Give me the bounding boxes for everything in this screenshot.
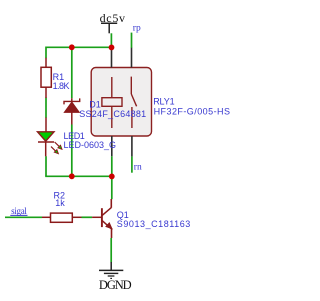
wire bottom rail <box>45 175 112 177</box>
wire D1 column upper <box>71 47 73 98</box>
wire rn stub <box>131 156 133 172</box>
wire rp stub <box>131 33 133 48</box>
wire top rail dc5v <box>46 46 112 48</box>
svg-text:HF32F-G/005-HS: HF32F-G/005-HS <box>154 106 231 116</box>
net label sigal <box>10 206 27 216</box>
svg-text:1k: 1k <box>55 198 65 208</box>
svg-text:1.8K: 1.8K <box>53 81 70 91</box>
LED LED1 <box>38 118 63 157</box>
svg-text:S9013_C181163: S9013_C181163 <box>117 219 191 229</box>
relay RLY1 body <box>91 68 151 137</box>
wire rail to Q1 collector <box>111 176 113 199</box>
relay coil <box>111 77 113 98</box>
wire dc5v stub <box>110 33 112 47</box>
wire coil bottom to rail <box>111 156 113 176</box>
svg-text:RLY1: RLY1 <box>153 97 174 107</box>
wire Q1 emitter to ground <box>110 238 112 262</box>
wire D1 column lower <box>71 125 73 177</box>
svg-text:SS24F_C64881: SS24F_C64881 <box>79 109 146 119</box>
relay pin top switch (black) <box>131 48 133 68</box>
svg-text:dc5v: dc5v <box>100 11 126 25</box>
junction node at dc5v/coil <box>109 45 115 51</box>
relay pin top coil (black) <box>111 48 113 68</box>
svg-text:D1: D1 <box>89 99 101 109</box>
svg-text:rp: rp <box>133 24 141 34</box>
wire left column lower (LED1 to bottom rail) <box>45 156 47 176</box>
power flag dc5v <box>100 11 126 33</box>
relay pin bottom coil (black) <box>111 136 113 156</box>
svg-text:LED-0603_G: LED-0603_G <box>64 140 117 150</box>
relay switch <box>130 77 132 94</box>
wire left column mid (R1 to LED1) <box>45 98 47 118</box>
junction node at bottom rail/coil <box>109 174 115 180</box>
wire R2 to Q1 base <box>82 216 93 218</box>
wire sigal to R2 <box>5 216 42 218</box>
diode D1 (schottky SS24F) <box>64 98 80 124</box>
svg-text:sigal: sigal <box>11 206 27 216</box>
relay pin bottom switch (black) <box>131 136 133 156</box>
ground DGND <box>99 262 132 292</box>
resistor R1 <box>41 58 51 98</box>
svg-text:DGND: DGND <box>99 278 132 292</box>
LED emission arrows <box>55 142 60 147</box>
resistor R2 <box>42 213 82 222</box>
junction node at bottom rail/D1 <box>69 173 75 179</box>
transistor Q1 <box>92 199 112 238</box>
junction node at dc5v/D1 <box>69 44 75 50</box>
wire left column upper (rail to R1) <box>45 47 47 59</box>
svg-text:rn: rn <box>134 163 142 173</box>
